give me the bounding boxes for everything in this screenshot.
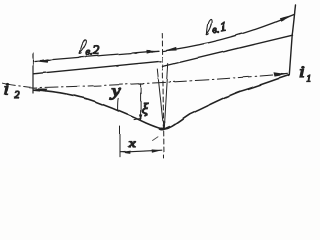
svg-text:y: y bbox=[109, 82, 122, 100]
center dashed axis vertical bbox=[162, 33, 163, 128]
top edge right panel bbox=[163, 35, 293, 66]
axis arrowhead left bbox=[34, 88, 48, 92]
dimension line x bbox=[121, 150, 162, 152]
stray mark near x extension bbox=[153, 137, 159, 141]
label l_v1 script ell (rotated) bbox=[204, 17, 228, 37]
dimension line l_v2 bbox=[35, 51, 159, 61]
sag curve right branch bbox=[164, 75, 289, 129]
arrowhead l_v2 right bbox=[146, 50, 159, 54]
xi ordinate base mark bbox=[134, 118, 141, 119]
tick at low point bbox=[164, 126, 170, 129]
svg-text:в.: в. bbox=[86, 47, 93, 58]
svg-text:1: 1 bbox=[219, 18, 228, 34]
arrowhead l_v2 left bbox=[35, 59, 49, 63]
arrowhead l_v1 right bbox=[279, 15, 294, 22]
extension line left (x=33) bbox=[32, 53, 34, 93]
label l_v2 script ell bbox=[79, 40, 86, 54]
xi ordinate line bbox=[140, 84, 142, 120]
x extension line left bbox=[119, 127, 121, 158]
xi ordinate arrowhead bbox=[139, 115, 142, 121]
dimension line l_v1 bbox=[164, 15, 295, 52]
right tip edge vertical bbox=[289, 6, 295, 75]
dash-dot axis line bbox=[3, 74, 288, 88]
arrowhead l_v1 left bbox=[164, 47, 177, 51]
svg-text:2: 2 bbox=[15, 90, 20, 101]
arrowhead x right bbox=[152, 149, 162, 152]
center dashed vertical below low point bbox=[163, 131, 165, 158]
y ordinate tail bbox=[117, 99, 120, 111]
svg-text:i: i bbox=[4, 80, 10, 97]
top edge left panel bbox=[33, 61, 161, 74]
svg-text:ξ: ξ bbox=[142, 102, 149, 118]
svg-text:i: i bbox=[299, 63, 305, 80]
sag curve left branch bbox=[34, 90, 164, 130]
low point junction blob bbox=[159, 128, 165, 131]
axis arrowhead right bbox=[274, 72, 288, 76]
arrowhead x left bbox=[120, 151, 130, 154]
svg-text:2: 2 bbox=[93, 43, 99, 57]
narrow V left line bbox=[157, 69, 163, 129]
svg-text:в.: в. bbox=[211, 24, 220, 36]
svg-text:x: x bbox=[128, 136, 136, 149]
narrow V right line bbox=[164, 64, 168, 129]
svg-text:1: 1 bbox=[307, 74, 312, 84]
